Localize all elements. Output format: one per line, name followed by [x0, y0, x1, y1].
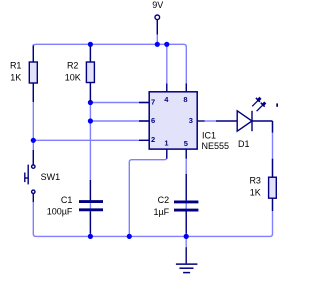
svg-text:C2: C2	[158, 195, 170, 205]
svg-text:3: 3	[189, 116, 193, 125]
svg-text:IC1: IC1	[202, 130, 216, 140]
svg-text:C1: C1	[61, 195, 73, 205]
svg-text:6: 6	[151, 116, 155, 125]
svg-text:1K: 1K	[10, 73, 21, 83]
svg-text:R3: R3	[249, 176, 261, 186]
svg-text:100µF: 100µF	[47, 207, 73, 217]
svg-text:D1: D1	[238, 139, 250, 149]
svg-text:NE555: NE555	[202, 141, 230, 151]
svg-text:R1: R1	[10, 61, 22, 71]
svg-text:1: 1	[164, 139, 168, 148]
svg-text:R2: R2	[67, 61, 79, 71]
svg-text:5: 5	[184, 139, 188, 148]
svg-text:9V: 9V	[152, 0, 163, 10]
svg-text:7: 7	[151, 97, 155, 106]
svg-text:1µF: 1µF	[153, 207, 169, 217]
svg-text:2: 2	[151, 135, 155, 144]
svg-text:SW1: SW1	[41, 172, 61, 182]
svg-text:1K: 1K	[250, 188, 261, 198]
svg-text:8: 8	[183, 95, 187, 104]
svg-text:10K: 10K	[65, 73, 81, 83]
